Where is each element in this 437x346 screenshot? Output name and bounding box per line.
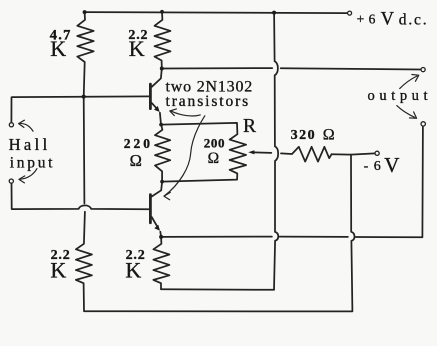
svg-text:K: K [125,257,141,282]
svg-text:Ω: Ω [323,126,335,143]
svg-text:Ω: Ω [130,151,142,170]
svg-text:320: 320 [291,128,317,143]
svg-text:Hall: Hall [9,135,51,154]
svg-text:Ω: Ω [208,150,220,167]
svg-text:output: output [368,88,433,104]
svg-text:6: 6 [369,12,376,27]
svg-text:R: R [243,116,256,137]
svg-text:V: V [381,9,395,29]
svg-text:K: K [129,36,145,61]
svg-text:input: input [10,155,55,172]
svg-text:K: K [50,257,66,282]
svg-text:V: V [384,153,399,177]
svg-text:K: K [50,36,66,61]
svg-text:+: + [357,11,365,26]
svg-text:220: 220 [124,136,153,151]
svg-text:200: 200 [204,136,225,151]
svg-text:transistors: transistors [166,93,251,110]
svg-text:d.c.: d.c. [399,12,429,29]
svg-text:- 6: - 6 [364,159,382,174]
